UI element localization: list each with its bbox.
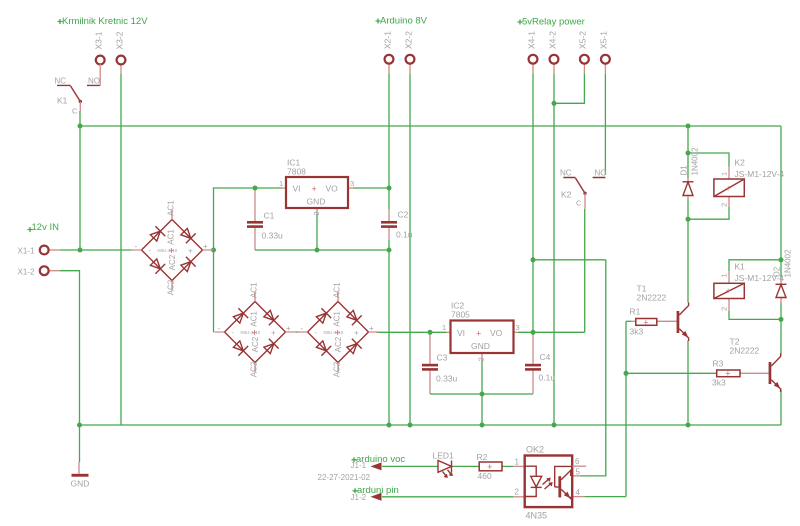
relay coil K1 JS-M1-12V-4 — [714, 262, 784, 312]
svg-text:3: 3 — [516, 323, 520, 332]
svg-text:7808: 7808 — [287, 167, 306, 177]
svg-text:arduni pin: arduni pin — [357, 485, 399, 496]
svg-text:X2-1: X2-1 — [382, 31, 392, 49]
svg-text:1: 1 — [442, 323, 446, 332]
svg-text:460: 460 — [478, 471, 492, 481]
rectifier bridge B3 KBU-4J10 — [298, 282, 380, 377]
switch K1 (top left) — [55, 64, 101, 116]
svg-text:0.1u: 0.1u — [539, 373, 556, 383]
junction T1 emitter on gnd rail — [686, 423, 691, 428]
svg-text:2N2222: 2N2222 — [730, 346, 760, 356]
diode D2 1N4002 — [773, 249, 793, 298]
svg-text:C2: C2 — [398, 210, 409, 220]
svg-text:NC: NC — [560, 169, 572, 178]
text pad name X5-1 — [599, 31, 609, 49]
wire K1 relay pin1 link — [729, 260, 781, 284]
wire D1 drop from rail to T1 — [687, 126, 689, 425]
voltage regulator IC2 7805 — [442, 301, 520, 362]
text pad name X4-1 — [526, 31, 536, 49]
junction IC2 pin2 gnd — [480, 392, 485, 397]
junction C2 bottom — [387, 248, 392, 253]
junction IC2 pin3 out — [531, 330, 536, 335]
wire IC2 pin2 down — [481, 353, 483, 425]
svg-text:2: 2 — [720, 203, 729, 207]
junction B1 output — [211, 248, 216, 253]
junction K1 relay pin2 node — [779, 317, 784, 322]
svg-text:0.33u: 0.33u — [262, 231, 284, 241]
label Krmilnik Kretnic 12V — [58, 16, 149, 27]
svg-text:4N35: 4N35 — [526, 511, 548, 521]
svg-text:OK2: OK2 — [526, 445, 544, 455]
svg-text:X4-1: X4-1 — [526, 31, 536, 49]
svg-text:JS-M1-12V-4: JS-M1-12V-4 — [735, 273, 785, 283]
pin arrow J1-2 — [351, 493, 382, 502]
svg-text:2: 2 — [515, 488, 520, 497]
wire base drive to R3 — [626, 372, 717, 374]
junction X5-2 to X4-2 — [552, 101, 557, 106]
junction K2 relay pin1 node — [686, 151, 691, 156]
svg-text:5: 5 — [576, 468, 581, 477]
svg-text:3k3: 3k3 — [712, 378, 726, 388]
junction IC2 gnd on rail — [480, 423, 485, 428]
junction D1 drop on 12V rail — [686, 124, 691, 129]
wire K1 relay pin2 link — [729, 299, 781, 320]
svg-text:+: + — [726, 286, 731, 296]
text pad name X2-1 — [382, 31, 392, 49]
capacitor C3 0.33u — [422, 353, 458, 384]
text date stamp — [318, 473, 371, 482]
wire K1 switch common down to X1-1 node — [79, 111, 81, 250]
junction K2 relay pin2 node — [686, 217, 691, 222]
svg-text:X4-2: X4-2 — [547, 31, 557, 49]
wire C4 tap — [532, 332, 534, 394]
resistor R3 3k3 — [712, 359, 740, 388]
svg-text:LED1: LED1 — [433, 451, 455, 461]
wire X4-2 line — [553, 64, 555, 425]
wire C1 tap — [254, 188, 256, 250]
capacitor C1 0.33u — [247, 211, 283, 241]
transistor T1 2N2222 — [637, 284, 689, 342]
wire B1 to B2 link — [213, 331, 216, 333]
wire J1-1 to LED1 — [382, 465, 438, 467]
voltage regulator IC1 7808 — [279, 158, 354, 216]
svg-text:1: 1 — [279, 179, 283, 188]
wire X3-2 line — [120, 64, 122, 425]
wire B3 output to IC2 pin1 — [377, 331, 451, 333]
svg-text:0.1u: 0.1u — [396, 230, 413, 240]
connector pad X4-2 — [550, 55, 559, 64]
svg-text:X2-2: X2-2 — [403, 31, 413, 49]
LED LED1 — [433, 451, 455, 478]
svg-text:VO: VO — [490, 328, 503, 338]
junction K1 relay pin1 node — [779, 257, 784, 262]
label arduni pin — [353, 485, 399, 496]
svg-text:NC: NC — [55, 77, 67, 86]
wire R1 link — [626, 320, 677, 322]
svg-text:+: + — [312, 184, 317, 194]
svg-text:2: 2 — [477, 357, 486, 361]
wire X5-1 node down to OK2 pin5 — [572, 260, 606, 476]
text pad name X4-2 — [547, 31, 557, 49]
junction IC1 pin2 ground — [315, 248, 320, 253]
svg-text:2N2222: 2N2222 — [637, 293, 667, 303]
wire X1-2 to GND net — [49, 271, 80, 462]
svg-text:GND: GND — [471, 341, 490, 351]
wire X4-1 line — [532, 64, 534, 333]
text pad name X2-2 — [403, 31, 413, 49]
svg-text:2: 2 — [720, 307, 729, 311]
svg-text:Krmilnik Kretnic 12V: Krmilnik Kretnic 12V — [62, 16, 148, 27]
svg-text:+: + — [643, 317, 648, 327]
connector pad X1-2 — [40, 266, 49, 275]
wire ground link C3 to C4 — [430, 393, 533, 395]
wire X1-1 to bridge B1 input — [49, 249, 132, 251]
wire X5-1 line to K2 switch NO — [604, 64, 606, 175]
wire B2 to B3 link — [296, 331, 298, 333]
svg-text:3k3: 3k3 — [630, 327, 644, 337]
wire GND rail bottom — [80, 424, 782, 426]
svg-text:+: + — [725, 369, 730, 379]
wire C3 tap — [429, 332, 431, 394]
wire LED1 to R2 — [452, 465, 479, 467]
wire 12V rail — [80, 125, 781, 127]
svg-text:12v IN: 12v IN — [32, 222, 60, 233]
wire base drive net riser — [625, 321, 627, 496]
connector pad X5-2 — [580, 55, 589, 64]
text pad name X3-2 — [114, 31, 124, 49]
connector pad X4-1 — [529, 55, 538, 64]
wire bridge B1 output riser and link to IC1 pin1 — [214, 188, 287, 332]
svg-text:5vRelay power: 5vRelay power — [522, 17, 585, 28]
resistor R2 460 — [477, 452, 503, 481]
svg-text:K2: K2 — [735, 158, 746, 168]
text pad name X1-2 — [18, 268, 35, 277]
svg-text:X1-2: X1-2 — [18, 268, 35, 277]
svg-text:1N4002: 1N4002 — [691, 147, 700, 176]
junction X2-2 on gnd rail — [408, 423, 413, 428]
wire K2 switch common riser — [584, 209, 586, 332]
svg-text:K1: K1 — [735, 262, 746, 272]
svg-text:NO: NO — [595, 169, 607, 178]
label 5vRelay power — [518, 17, 585, 28]
svg-text:X5-1: X5-1 — [599, 31, 609, 49]
rectifier bridge B2 KBU-4J10 — [215, 282, 297, 377]
svg-text:VI: VI — [457, 328, 465, 338]
svg-text:arduino voc: arduino voc — [356, 454, 405, 465]
capacitor C4 0.1u — [525, 352, 555, 383]
junction X1-1 node — [78, 248, 83, 253]
svg-text:JS-M1-12V-4: JS-M1-12V-4 — [735, 169, 785, 179]
pin arrow J1-1 — [351, 461, 382, 470]
junction C1 top — [253, 186, 258, 191]
wire right drop to K1 relay and T2 — [780, 126, 782, 425]
svg-text:C3: C3 — [437, 353, 448, 363]
text pad name X1-1 — [18, 247, 35, 256]
wire X5-2 line — [554, 64, 584, 104]
resistor R1 3k3 — [630, 307, 657, 337]
wire R3 to T2 base — [740, 372, 769, 374]
connector pad X2-2 — [406, 55, 415, 64]
svg-text:4: 4 — [576, 488, 581, 497]
junction GND stem — [77, 423, 82, 428]
text pad name X5-2 — [578, 31, 588, 49]
connector pad X2-1 — [385, 55, 394, 64]
svg-text:GND: GND — [307, 197, 326, 207]
svg-text:D1: D1 — [680, 165, 689, 176]
connector pad X3-1 — [96, 56, 105, 65]
svg-text:2: 2 — [312, 211, 321, 215]
text pad name X3-1 — [94, 31, 104, 49]
svg-text:1: 1 — [720, 172, 729, 176]
wire OK2 pin4 link — [572, 496, 626, 498]
wire 5V horizontal node — [533, 259, 606, 261]
svg-text:1: 1 — [515, 458, 520, 467]
diode D1 1N4002 — [680, 147, 700, 196]
label arduino voc — [352, 454, 406, 465]
svg-text:X1-1: X1-1 — [18, 247, 35, 256]
junction C3 top — [428, 330, 433, 335]
wire R2 to OK2 pin1 — [502, 465, 525, 467]
svg-text:R3: R3 — [713, 359, 724, 369]
svg-text:1N4002: 1N4002 — [784, 249, 793, 278]
svg-text:7805: 7805 — [451, 310, 470, 320]
wire X2-1 line — [388, 64, 390, 425]
wire K2 relay pin2 link — [688, 197, 729, 220]
junction base drive — [624, 371, 629, 376]
optocoupler OK2 4N35 — [515, 445, 587, 521]
svg-text:X3-2: X3-2 — [114, 31, 124, 49]
switch K2 (middle) — [560, 169, 607, 210]
svg-text:C: C — [72, 107, 78, 116]
svg-text:1: 1 — [720, 273, 729, 277]
connector pad X5-1 — [601, 55, 610, 64]
svg-text:R1: R1 — [630, 307, 641, 317]
svg-text:C4: C4 — [540, 352, 551, 362]
svg-text:NO: NO — [88, 77, 100, 86]
svg-text:+: + — [476, 328, 481, 338]
svg-text:0.33u: 0.33u — [436, 374, 458, 384]
connector pad X1-1 — [40, 246, 49, 255]
junction IC1 pin3 out — [387, 186, 392, 191]
junction K1 common on 12V rail — [78, 124, 83, 129]
svg-text:X5-2: X5-2 — [578, 31, 588, 49]
wire X2-2 line — [409, 64, 411, 425]
svg-text:GND: GND — [71, 479, 90, 489]
ground symbol GND — [71, 462, 90, 489]
svg-text:22-27-2021-02: 22-27-2021-02 — [318, 473, 371, 482]
svg-text:+: + — [726, 184, 731, 194]
junction X4-2 on gnd rail — [552, 423, 557, 428]
wire IC2 pin3 output — [514, 331, 585, 333]
svg-text:K2: K2 — [561, 190, 572, 200]
svg-text:C: C — [576, 199, 582, 208]
junction X2-1 on gnd rail — [387, 423, 392, 428]
svg-text:3: 3 — [350, 179, 354, 188]
svg-text:Arduino 8V: Arduino 8V — [380, 16, 428, 27]
capacitor C2 0.1u — [381, 210, 413, 240]
rectifier bridge B1 KBU-4J10 — [132, 200, 214, 295]
wire IC1 pin3 to X2-1 line — [348, 187, 389, 189]
wire J1-2 to OK2 pin2 — [382, 496, 525, 498]
transistor T2 2N2222 — [730, 337, 781, 393]
wire ground link C1 to C2 — [255, 249, 389, 251]
junction X4-1 5V node — [531, 257, 536, 262]
svg-text:6: 6 — [575, 457, 580, 466]
svg-text:K1: K1 — [57, 96, 68, 106]
svg-text:VO: VO — [326, 184, 339, 194]
label Arduino 8V — [376, 16, 428, 27]
svg-text:X3-1: X3-1 — [94, 31, 104, 49]
wire IC1 pin2 down — [316, 208, 318, 250]
svg-text:R2: R2 — [477, 452, 488, 462]
label 12v IN — [28, 222, 60, 233]
wire K2 relay pin1 link — [688, 153, 729, 179]
connector pad X3-2 — [117, 56, 126, 65]
svg-text:VI: VI — [293, 184, 301, 194]
svg-text:C1: C1 — [264, 211, 275, 221]
relay coil K2 JS-M1-12V-4 — [714, 158, 784, 208]
